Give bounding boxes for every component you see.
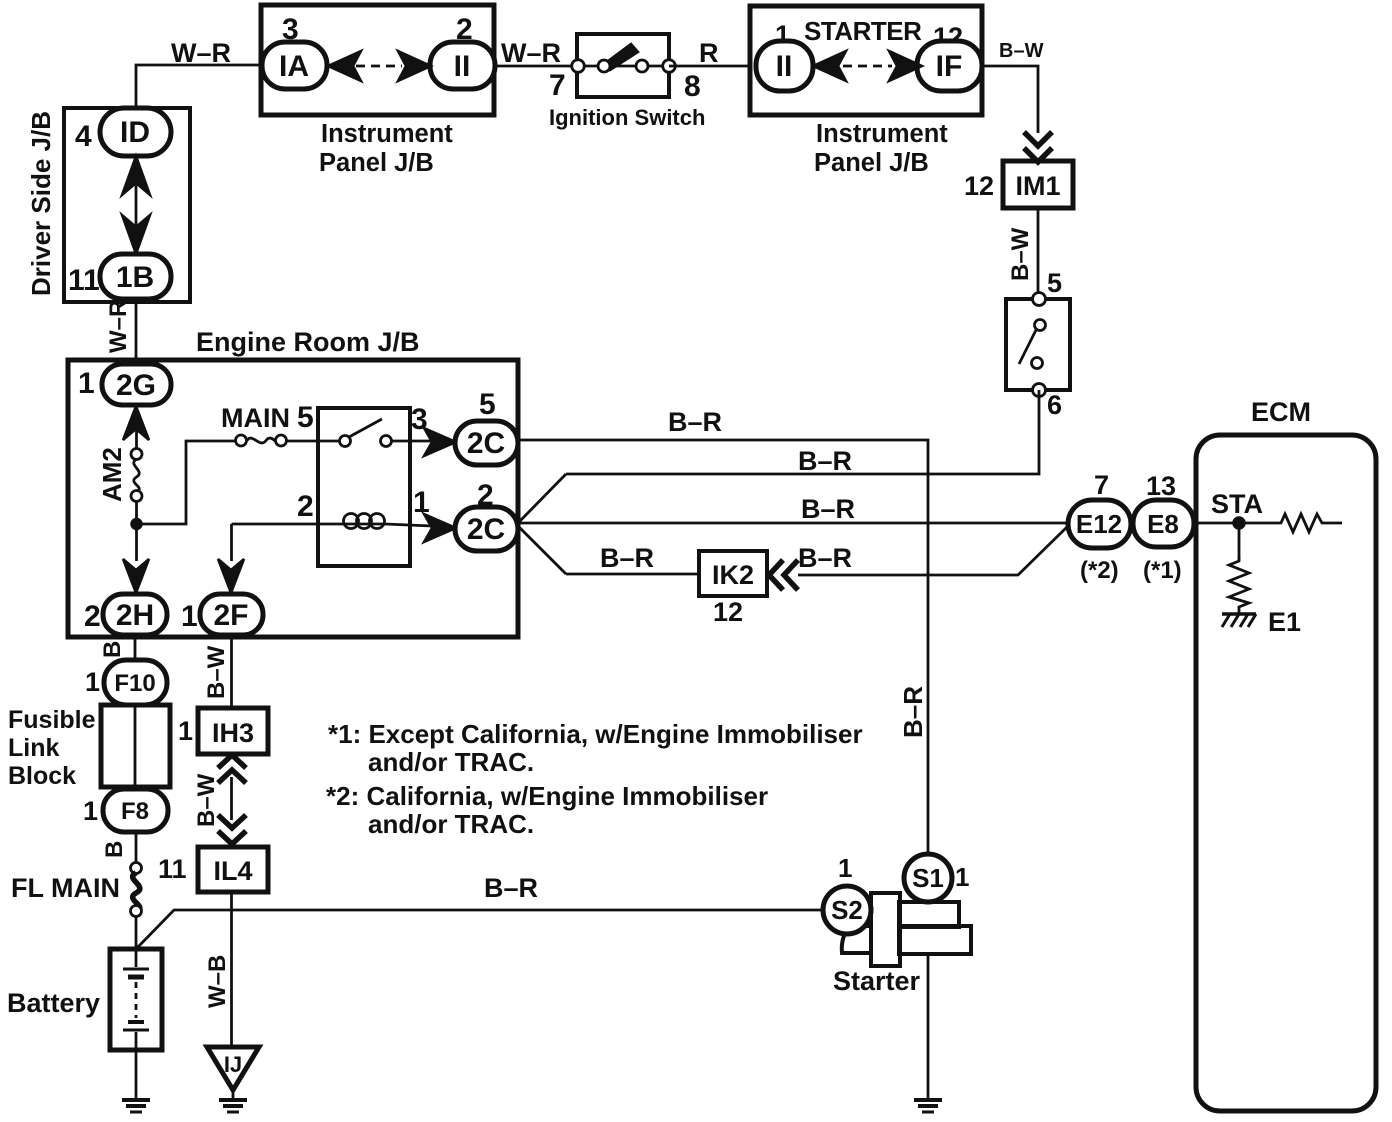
ground connector IJ — [207, 1047, 259, 1090]
svg-text:B–R: B–R — [798, 543, 852, 573]
svg-text:E1: E1 — [1268, 607, 1301, 637]
connector 2C bottom — [455, 507, 518, 551]
wire battery to S2 — [136, 910, 823, 949]
switch blade — [1019, 330, 1036, 364]
junction block IM1 — [1003, 161, 1073, 208]
battery — [110, 949, 162, 1050]
connector IF — [917, 41, 982, 91]
svg-text:2C: 2C — [467, 513, 505, 546]
arrow down to 2F — [218, 559, 244, 593]
terminal S2 — [823, 886, 871, 934]
wire 2C bottom to E12 — [518, 522, 1068, 525]
svg-text:B–R: B–R — [898, 686, 928, 738]
svg-text:Starter: Starter — [833, 966, 921, 996]
svg-text:2: 2 — [84, 600, 101, 633]
svg-text:F10: F10 — [114, 670, 155, 697]
wire IK2 to E12 diagonal — [798, 527, 1067, 575]
svg-text:(*1): (*1) — [1143, 557, 1182, 584]
svg-text:7: 7 — [1094, 470, 1109, 500]
svg-text:and/or TRAC.: and/or TRAC. — [368, 809, 534, 839]
svg-text:B–R: B–R — [801, 494, 855, 524]
wire IPJB1 to ignition switch — [494, 65, 578, 68]
wire F8 down — [135, 832, 138, 863]
chevron connector left 2 — [784, 560, 798, 590]
connector 2F — [200, 594, 263, 635]
svg-text:E12: E12 — [1076, 509, 1122, 539]
svg-text:IL4: IL4 — [213, 856, 252, 886]
chevron connector down 1 — [1024, 132, 1052, 146]
svg-text:B–R: B–R — [668, 407, 722, 437]
svg-text:F8: F8 — [121, 798, 149, 825]
svg-text:S2: S2 — [831, 895, 863, 925]
arrow right to 2C bottom — [424, 514, 456, 542]
ECM box — [1196, 435, 1376, 1111]
svg-text:B–W: B–W — [193, 773, 220, 827]
svg-text:2H: 2H — [116, 599, 154, 632]
starter relay box — [318, 408, 410, 566]
svg-text:8: 8 — [684, 70, 701, 103]
arrow right to II — [398, 51, 431, 81]
svg-text:II: II — [454, 50, 471, 83]
svg-text:1: 1 — [85, 667, 100, 697]
svg-text:B: B — [99, 641, 126, 658]
wire IJ to ground — [232, 1090, 235, 1100]
wire junction to MAIN fuse — [137, 441, 237, 524]
connector E12 — [1068, 500, 1131, 548]
junction dot — [132, 519, 142, 529]
ground battery — [122, 1100, 150, 1112]
ignition switch terminal 7 — [572, 60, 585, 73]
connector 2H — [103, 594, 167, 635]
dashed link — [356, 65, 402, 68]
connector 2C top — [455, 421, 518, 465]
svg-text:1: 1 — [955, 862, 969, 892]
Driver Side J/B box — [64, 108, 190, 302]
connector ID — [100, 108, 171, 156]
svg-text:2F: 2F — [213, 599, 248, 632]
svg-text:5: 5 — [297, 401, 314, 434]
wire 2C top to starter S1 — [518, 440, 928, 854]
svg-text:Engine Room J/B: Engine Room J/B — [196, 327, 420, 357]
svg-text:1: 1 — [78, 367, 95, 400]
svg-text:2G: 2G — [116, 369, 156, 402]
svg-text:W–R: W–R — [105, 300, 132, 353]
svg-text:Panel J/B: Panel J/B — [814, 149, 929, 177]
svg-text:FL MAIN: FL MAIN — [11, 873, 120, 903]
svg-text:*1: Except California, w/Engin: *1: Except California, w/Engine Immobili… — [328, 719, 863, 749]
svg-text:E8: E8 — [1147, 509, 1179, 539]
svg-text:1: 1 — [181, 600, 198, 633]
svg-text:2: 2 — [297, 490, 314, 523]
wire FL MAIN to battery — [135, 916, 138, 951]
svg-text:1: 1 — [83, 796, 98, 826]
wire coil feed from 2F riser — [232, 523, 347, 526]
svg-text:Driver Side J/B: Driver Side J/B — [26, 111, 56, 296]
ground starter — [914, 1100, 942, 1112]
wire IF right then down — [982, 66, 1038, 133]
relay contact b — [381, 436, 392, 447]
svg-text:6: 6 — [1047, 390, 1062, 420]
node STA dot — [1234, 518, 1245, 529]
svg-text:Panel J/B: Panel J/B — [319, 149, 434, 177]
relay contact a — [340, 436, 351, 447]
svg-text:R: R — [699, 38, 719, 68]
junction block IH3 — [198, 708, 268, 754]
chevron connector up 2 — [218, 770, 246, 783]
fuse F8 — [103, 789, 168, 832]
svg-text:1: 1 — [838, 853, 852, 883]
arrow right to 2C top — [424, 428, 456, 456]
chassis ground E1 — [1222, 614, 1256, 627]
wire IL4 to IJ — [230, 892, 233, 1047]
switch terminal 5 — [1033, 293, 1046, 306]
fuse MAIN — [236, 435, 287, 446]
svg-text:1B: 1B — [116, 261, 154, 294]
svg-text:MAIN: MAIN — [221, 403, 290, 433]
Instrument Panel J/B box 2 — [750, 6, 982, 115]
Ignition Switch box — [577, 34, 669, 97]
svg-text:STA: STA — [1211, 489, 1263, 519]
svg-text:Fusible: Fusible — [8, 706, 96, 734]
fuse AM2 — [131, 449, 142, 502]
ignition switch lever — [604, 44, 638, 70]
wire relay to 2C top — [391, 440, 432, 443]
svg-text:2C: 2C — [467, 427, 505, 460]
wire battery to ground — [135, 1050, 138, 1100]
riser from 2F to coil line — [230, 524, 233, 561]
starter body — [842, 893, 971, 966]
wire 2H to F10 — [134, 635, 137, 662]
connector 1B — [100, 254, 171, 299]
arrow down to 2H — [123, 559, 149, 593]
wire pin6 down and left — [566, 390, 1039, 474]
wire MAIN fuse to relay — [286, 440, 340, 443]
svg-text:B–W: B–W — [999, 40, 1044, 62]
wire to IK2 — [566, 573, 699, 576]
svg-text:4: 4 — [75, 120, 92, 153]
wire STA down — [1238, 523, 1241, 560]
terminal S1 — [904, 854, 952, 902]
svg-text:S1: S1 — [912, 863, 944, 893]
wire starter to ground — [927, 954, 930, 1100]
svg-text:11: 11 — [158, 854, 187, 884]
svg-text:Block: Block — [8, 762, 76, 790]
relay blade — [349, 419, 382, 437]
ignition switch contact b — [598, 60, 610, 72]
svg-text:ID: ID — [120, 116, 150, 149]
wire E8 to STA — [1194, 522, 1258, 525]
svg-text:5: 5 — [1047, 268, 1062, 298]
svg-text:and/or TRAC.: and/or TRAC. — [368, 747, 534, 777]
connector E8 — [1133, 500, 1194, 547]
switch contact upper — [1035, 320, 1046, 331]
arrow up to 2G — [123, 406, 149, 440]
arrow up to ID — [122, 156, 150, 195]
arrow left to IA — [328, 51, 361, 81]
wire fuse to junction — [135, 501, 138, 561]
wire through ignition switch — [578, 65, 669, 68]
chevron connector down 4 — [218, 831, 246, 844]
chevron connector left 1 — [769, 560, 783, 590]
svg-text:Ignition Switch: Ignition Switch — [549, 105, 705, 130]
arrow down to 1B — [122, 215, 150, 254]
wire 1B down to 2G — [135, 299, 138, 364]
connector II a — [430, 42, 495, 89]
arrow right to IF — [889, 51, 922, 81]
svg-text:Battery: Battery — [7, 988, 100, 1018]
relay coil — [344, 514, 386, 529]
resistor vertical — [1229, 557, 1249, 614]
svg-text:11: 11 — [68, 264, 100, 297]
junction block IK2 — [699, 551, 767, 596]
chevron connector up 1 — [218, 755, 246, 768]
svg-text:*2: California, w/Engine Immob: *2: California, w/Engine Immobiliser — [326, 781, 768, 811]
diagonal to 2C — [519, 474, 566, 522]
svg-text:STARTER: STARTER — [804, 16, 922, 46]
svg-text:B–W: B–W — [1007, 227, 1034, 281]
resistor horizontal — [1258, 514, 1342, 532]
wire ignition switch to IPJB2 — [669, 65, 750, 68]
wire IH3 to IL4 — [230, 777, 233, 820]
svg-text:ECM: ECM — [1251, 397, 1311, 427]
ground IJ — [219, 1100, 247, 1112]
svg-text:12: 12 — [713, 597, 743, 627]
svg-text:B: B — [101, 841, 128, 858]
switch contact lower — [1032, 358, 1043, 369]
svg-text:IJ: IJ — [224, 1052, 242, 1077]
svg-text:B–R: B–R — [798, 446, 852, 476]
wire ID-1B — [135, 180, 138, 231]
ignition switch terminal 8 — [663, 60, 676, 73]
fusible link block — [101, 705, 170, 787]
svg-text:B–W: B–W — [203, 645, 230, 699]
connector II b — [756, 41, 813, 91]
svg-text:(*2): (*2) — [1080, 557, 1119, 584]
wire coil to 2C bottom — [385, 524, 432, 526]
svg-text:B–R: B–R — [600, 543, 654, 573]
svg-text:IA: IA — [279, 50, 309, 83]
svg-text:IF: IF — [936, 50, 963, 83]
svg-text:AM2: AM2 — [97, 447, 127, 502]
svg-text:Instrument: Instrument — [816, 120, 948, 148]
park/neutral switch box — [1006, 299, 1070, 390]
svg-text:W–B: W–B — [204, 955, 231, 1008]
chevron connector down 3 — [218, 815, 246, 828]
svg-text:1: 1 — [178, 716, 193, 746]
svg-text:12: 12 — [964, 171, 994, 201]
diagonal 2C to IK2 line — [519, 527, 566, 574]
svg-text:13: 13 — [1146, 471, 1176, 501]
wire ID up and right to Instrument Panel J/B — [136, 65, 261, 108]
connector IA — [262, 42, 327, 89]
ignition switch contact c — [636, 60, 648, 72]
arrow left to II — [813, 51, 846, 81]
fusible link FL MAIN — [131, 863, 142, 917]
svg-text:5: 5 — [479, 388, 496, 421]
Engine Room J/B box — [68, 360, 518, 637]
svg-text:IH3: IH3 — [212, 718, 254, 748]
svg-text:IK2: IK2 — [712, 560, 754, 590]
wire 2G to fuse AM2 — [135, 428, 138, 449]
svg-text:Instrument: Instrument — [321, 120, 453, 148]
wire 2F to IH3 — [230, 635, 233, 708]
wire IM1 down to clutch switch — [1037, 208, 1040, 299]
dashed link 2 — [843, 65, 892, 68]
Instrument Panel J/B box 1 — [261, 5, 494, 115]
fuse F10 — [104, 660, 167, 705]
svg-text:Link: Link — [8, 734, 59, 762]
junction block IL4 — [198, 847, 268, 892]
connector 2G — [102, 364, 171, 405]
svg-text:W–R: W–R — [501, 38, 561, 68]
switch terminal 6 — [1033, 384, 1046, 397]
svg-text:B–R: B–R — [484, 873, 538, 903]
svg-text:7: 7 — [549, 69, 566, 102]
chevron connector down 2 — [1024, 148, 1052, 162]
svg-text:IM1: IM1 — [1015, 171, 1060, 201]
svg-text:II: II — [776, 50, 793, 83]
svg-text:W–R: W–R — [171, 38, 231, 68]
